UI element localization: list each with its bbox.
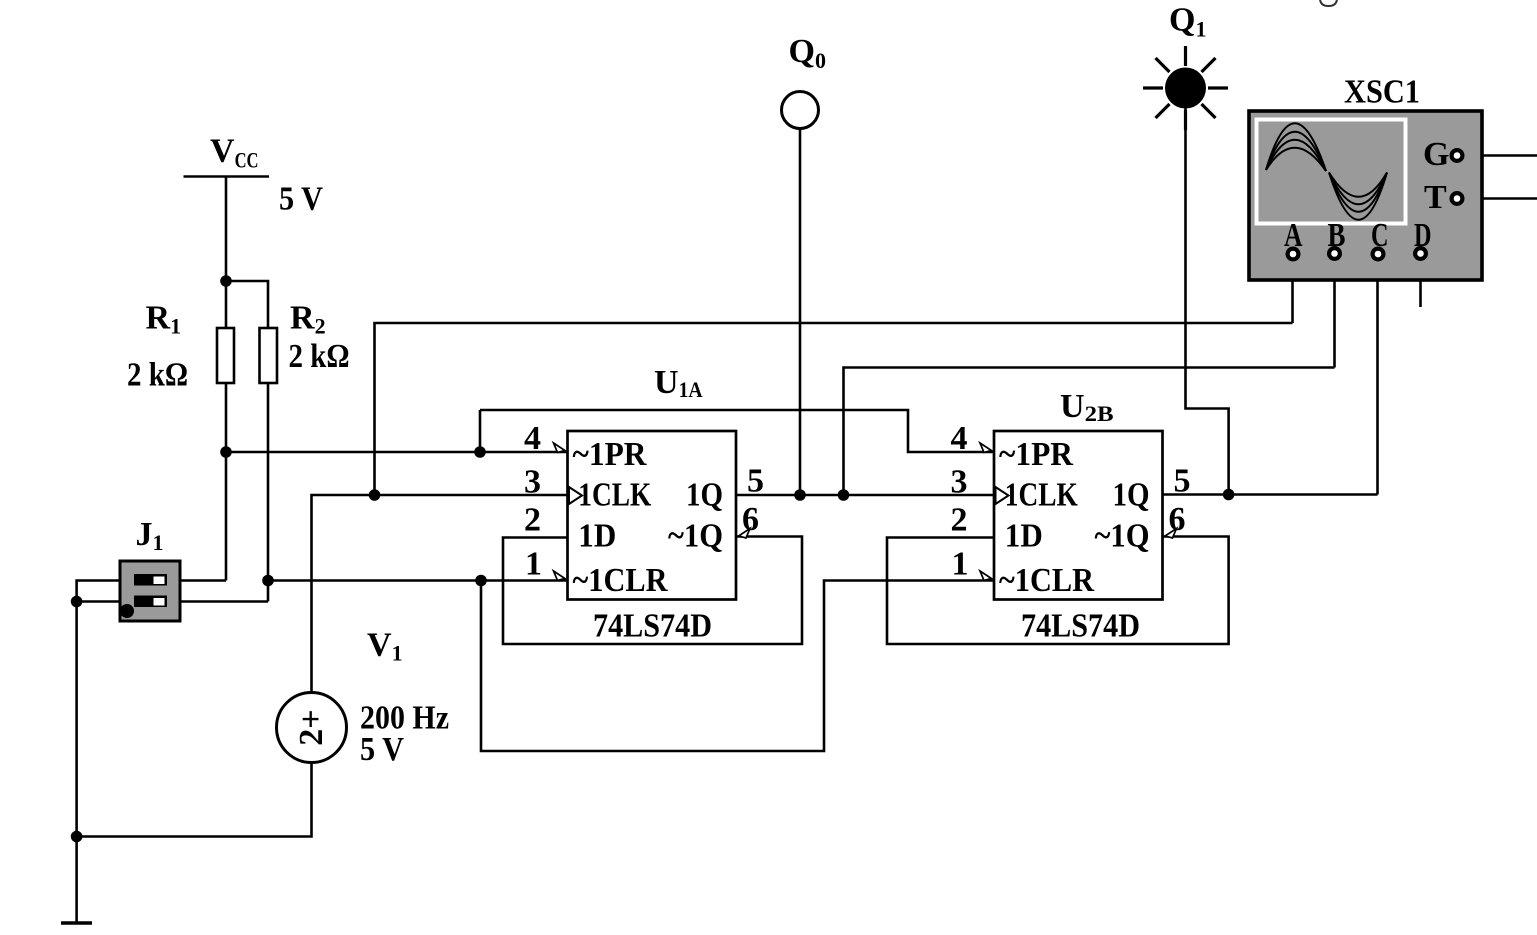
svg-text:2: 2 <box>524 502 541 539</box>
svg-text:2+: 2+ <box>293 709 330 745</box>
svg-text:5 V: 5 V <box>279 181 323 218</box>
svg-text:T: T <box>1424 179 1447 216</box>
svg-text:2: 2 <box>951 502 968 539</box>
svg-text:~1Q: ~1Q <box>668 518 723 555</box>
svg-text:1D: 1D <box>1005 518 1043 555</box>
svg-text:4: 4 <box>951 420 968 457</box>
svg-text:XSC1: XSC1 <box>1344 74 1420 111</box>
svg-text:5 V: 5 V <box>360 731 404 768</box>
svg-text:~1Q: ~1Q <box>1095 518 1150 555</box>
svg-text:6: 6 <box>742 501 759 538</box>
svg-text:2 kΩ: 2 kΩ <box>289 338 350 375</box>
svg-text:B: B <box>1328 217 1346 254</box>
svg-text:74LS74D: 74LS74D <box>593 608 712 645</box>
svg-text:6: 6 <box>1169 501 1186 538</box>
svg-text:1CLK: 1CLK <box>578 477 651 514</box>
svg-text:1Q: 1Q <box>1113 477 1150 514</box>
svg-text:4: 4 <box>524 420 541 457</box>
svg-text:1: 1 <box>952 546 969 583</box>
svg-text:1CLK: 1CLK <box>1005 477 1078 514</box>
svg-text:D: D <box>1414 217 1432 254</box>
svg-text:3: 3 <box>524 464 541 501</box>
svg-text:5: 5 <box>1174 463 1191 500</box>
svg-text:5: 5 <box>747 463 764 500</box>
svg-text:C: C <box>1371 217 1389 254</box>
svg-text:1Q: 1Q <box>686 477 723 514</box>
svg-text:3: 3 <box>951 464 968 501</box>
svg-text:74LS74D: 74LS74D <box>1021 608 1140 645</box>
svg-text:~1CLR: ~1CLR <box>573 562 668 599</box>
svg-text:A: A <box>1284 217 1303 254</box>
svg-text:1D: 1D <box>578 518 616 555</box>
svg-text:~1PR: ~1PR <box>573 436 647 473</box>
svg-text:2 kΩ: 2 kΩ <box>127 357 188 394</box>
svg-text:~1PR: ~1PR <box>999 436 1073 473</box>
svg-text:G: G <box>1423 136 1449 173</box>
svg-text:~1CLR: ~1CLR <box>999 562 1094 599</box>
svg-text:1: 1 <box>525 546 542 583</box>
